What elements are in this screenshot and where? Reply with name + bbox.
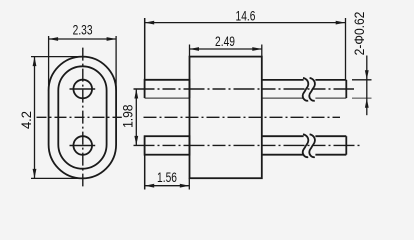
- dim 1.56 line: [145, 185, 190, 187]
- left view outer stadium outline: [49, 57, 117, 179]
- svg-text:2.49: 2.49: [215, 34, 235, 50]
- dim phi0.62 ext top: [352, 79, 372, 81]
- dim 14.6 ext right: [345, 18, 347, 80]
- arrow phi0.62 down (to pin top): [365, 70, 369, 80]
- right view body: [190, 57, 262, 179]
- hole 2 horizontal center mark: [70, 145, 96, 147]
- svg-text:4.2: 4.2: [19, 111, 35, 129]
- svg-text:2.33: 2.33: [73, 22, 93, 38]
- arrow 4.2 bottom: [33, 169, 37, 179]
- middle centerline: [144, 116, 341, 118]
- upper pin top edge: [262, 79, 347, 81]
- arrow 1.56 left: [145, 184, 155, 188]
- upper pin bottom edge (faint): [262, 97, 347, 99]
- svg-text:2-Φ0.62: 2-Φ0.62: [351, 12, 367, 56]
- dim 14.6 line: [145, 22, 346, 24]
- dim 2.49 line: [190, 48, 262, 50]
- pin1 centerline: [134, 88, 355, 90]
- lower left stub: [145, 136, 190, 155]
- svg-text:14.6: 14.6: [236, 8, 256, 24]
- dim phi0.62 line: [366, 56, 368, 116]
- arrow 2.49 left: [190, 47, 200, 51]
- arrow 14.6 left: [145, 21, 155, 25]
- hole 2 (lower): [73, 136, 92, 155]
- break squiggle pin2 b: [309, 134, 315, 157]
- lower pin bottom edge: [262, 154, 347, 156]
- arrow 1.98 bottom: [134, 136, 138, 146]
- left view vertical centerline: [82, 48, 84, 187]
- lower pin end cap: [345, 136, 347, 155]
- arrow phi0.62 up (to pin bottom): [365, 98, 369, 108]
- hole 1 horizontal center mark: [70, 88, 96, 90]
- svg-text:1.56: 1.56: [157, 170, 177, 186]
- arrow 2.33 left: [49, 37, 59, 41]
- arrow 14.6 right: [336, 21, 346, 25]
- dim 2.49 ext right: [261, 45, 263, 57]
- dim 4.2 line: [34, 57, 36, 179]
- left view horizontal centerline: [37, 116, 122, 118]
- dim phi0.62 ext bottom (faint): [352, 97, 372, 99]
- dim 2.33 extension left: [48, 36, 50, 91]
- dim 2.49 ext left: [189, 45, 191, 57]
- arrow 2.49 right: [252, 47, 262, 51]
- upper left stub: [145, 80, 190, 98]
- dim 14.6 ext left / stub caps / 1.56 ext left: [144, 18, 146, 190]
- hole 1 (upper): [73, 80, 92, 99]
- arrow 2.33 right: [107, 37, 117, 41]
- dim 4.2 extension top: [31, 56, 83, 58]
- lower pin top edge: [262, 135, 347, 137]
- break squiggle pin2 a: [303, 134, 309, 157]
- arrow 1.56 right: [180, 184, 190, 188]
- left view inner stadium outline: [58, 66, 106, 168]
- dim 2.33 extension right: [115, 36, 117, 91]
- pin2 centerline: [134, 144, 361, 146]
- dim 4.2 extension bottom: [31, 177, 83, 179]
- break squiggle pin1 a: [303, 78, 309, 101]
- dim 1.98 line (left view): [135, 89, 137, 145]
- svg-text:1.98: 1.98: [120, 104, 136, 127]
- dim 2.33 line: [49, 38, 117, 40]
- arrow 1.98 top: [134, 89, 138, 99]
- break squiggle pin1 b: [309, 78, 315, 101]
- upper left stub bottom edge (faint): [145, 97, 190, 99]
- dim 1.56 ext right: [188, 178, 190, 189]
- arrow 4.2 top: [33, 57, 37, 67]
- upper pin end cap: [345, 80, 347, 98]
